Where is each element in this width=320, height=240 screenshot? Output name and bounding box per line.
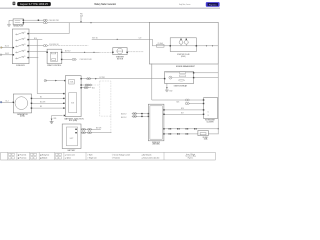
svg-text:STARTER RELAY: STARTER RELAY (177, 53, 191, 56)
connector C5 circle (44, 79, 46, 81)
pin on row1 (141, 113, 143, 114)
wire module row2 (189, 103, 203, 105)
wire K2 upper to right edge (194, 72, 218, 74)
svg-text:⊕ Serial comms data line: ⊕ Serial comms data line (142, 157, 160, 160)
svg-text:C300 B5 25R: C300 B5 25R (49, 20, 60, 22)
legend cell1 text (18, 153, 27, 159)
generator GEN box (13, 94, 33, 113)
wire module row4 from PDB (165, 113, 204, 115)
svg-text:Body, Main, Concise: Body, Main, Concise (179, 4, 191, 6)
wire battery pin1 (81, 128, 101, 130)
arrow on K2 ground wire (166, 87, 168, 89)
svg-text:B25: B25 (177, 102, 180, 104)
model badge Jaguar S-TYPE 1999.25 (17, 2, 51, 6)
off-page connector P1 (0, 47, 2, 49)
svg-text:C20: C20 (139, 38, 142, 40)
wire PDB out row upper (165, 128, 219, 130)
wire K1 to starter motor (62, 51, 99, 53)
connector C11 circles (185, 103, 189, 105)
svg-text:BATT: BATT (70, 137, 74, 140)
off-page connector P2 (0, 101, 2, 103)
legend cell5 text (112, 153, 160, 159)
power distribution box PDB (double border) (148, 104, 165, 141)
wire K2 lower to right edge (194, 77, 218, 79)
connector C2 circles (43, 22, 47, 24)
relay K1 box (46, 49, 62, 63)
connector C9 circles (82, 132, 92, 134)
svg-text:250A: 250A (70, 80, 74, 83)
connector C3 circles (43, 45, 47, 47)
svg-text:B16: B16 (34, 38, 37, 40)
wire BJB feed to module box (82, 64, 152, 79)
svg-text:31-2: 31-2 (5, 100, 8, 102)
svg-text:Issue 1 Sheet: Issue 1 Sheet (186, 153, 196, 156)
legend band (1, 152, 216, 160)
pin on row2 (141, 116, 143, 117)
switch SW1 box top-left (13, 19, 24, 25)
svg-text:Battery Starter Generator: Battery Starter Generator (95, 3, 117, 6)
svg-text:F5: F5 (24, 56, 26, 58)
legend cell6 text (185, 153, 196, 160)
legend cell2 symbols (31, 152, 40, 160)
splice node S2 (84, 52, 85, 53)
logo growler badge (13, 2, 16, 5)
legend cell3 symbols (56, 152, 64, 160)
legend dividers (8, 152, 164, 160)
wire PDB out row lower (165, 133, 198, 135)
wire SW1 to ground (9, 20, 13, 24)
wire FB1 row5 stub (29, 57, 38, 59)
branch to relay K2 (152, 78, 165, 80)
svg-text:B41 3U: B41 3U (121, 117, 127, 119)
wire SW1 pin1 right (24, 19, 43, 21)
svg-text:⏚ Footnote: ⏚ Footnote (112, 157, 120, 160)
svg-text:F4: F4 (24, 50, 26, 52)
svg-text:⊕ Air Network: ⊕ Air Network (142, 153, 152, 156)
BJB pins right (80, 78, 82, 88)
wire BJB bottom to ground (52, 116, 63, 122)
dashed wire to enclosure (92, 84, 100, 86)
svg-text:B3: B3 (40, 106, 42, 108)
battery junction box BJB (65, 76, 81, 117)
ground G1 (7, 25, 10, 27)
svg-text:▣ Relay box: ▣ Relay box (40, 153, 49, 156)
connector C10 circles on row1 (185, 99, 189, 101)
svg-text:B21: B21 (92, 88, 95, 90)
connector C8 circles (82, 128, 92, 130)
module box top-right (203, 98, 218, 119)
svg-text:(ENGINE): (ENGINE) (152, 144, 160, 146)
pin BJB bottom-left (64, 115, 65, 116)
wire FB1 row1 up to bus (29, 23, 69, 34)
wire GEN pin1 to BJB (32, 97, 64, 99)
svg-text:MEGA FUSE: MEGA FUSE (13, 24, 24, 27)
dashed drop from enclosure (110, 116, 112, 133)
wire K1 lower to connector (62, 58, 72, 60)
wire into big box (92, 39, 153, 46)
svg-text:MOTOR: MOTOR (117, 58, 124, 60)
connector C13 circles (133, 113, 137, 115)
BJB pins left (63, 93, 65, 109)
svg-text:▣ Fuse box: ▣ Fuse box (18, 157, 27, 160)
wire FB1 row3 to connector (29, 45, 44, 47)
svg-text:B1: B1 (40, 97, 42, 99)
connector C7b circles (84, 87, 88, 89)
svg-text:BATTERY: BATTERY (68, 149, 77, 152)
svg-text:B19 3U: B19 3U (92, 37, 98, 39)
fusebox FB1 (12, 29, 29, 64)
splice node S4 (117, 39, 118, 40)
svg-text:CLUSTER: CLUSTER (206, 121, 214, 123)
svg-text:12: 12 (208, 112, 210, 114)
svg-text:IGNITION RELAY: IGNITION RELAY (174, 84, 188, 87)
svg-text:▽ Single wire: ▽ Single wire (87, 157, 97, 160)
svg-text:B7 25R: B7 25R (100, 77, 106, 79)
BIG MODULE BOX right (149, 22, 218, 64)
wire battery pin2 (81, 132, 111, 134)
ground G2 (50, 122, 53, 124)
svg-text:B40 3U: B40 3U (121, 113, 127, 115)
HEADER (0, 2, 220, 8)
svg-text:Jaguar S-TYPE 1999.25: Jaguar S-TYPE 1999.25 (20, 3, 49, 6)
svg-text:START CONTROL: START CONTROL (47, 64, 61, 67)
right margin vertical wire (217, 64, 219, 134)
svg-text:⊕ In-line conn: ⊕ In-line conn (65, 153, 75, 156)
legend cell1 symbols (9, 152, 17, 160)
svg-text:C102 B18 2.5UR: C102 B18 2.5UR (80, 59, 93, 61)
terminal pairs on lower row (169, 133, 189, 134)
svg-text:B31: B31 (54, 118, 57, 120)
arrow on BJB feed wire (95, 78, 97, 80)
fuse row 1 (16, 32, 29, 35)
svg-text:▽ Earth: ▽ Earth (87, 153, 93, 156)
wire FB1 row2 stub (29, 39, 42, 41)
pin on wire (38, 20, 39, 21)
header rule (0, 7, 220, 9)
legend cell3 text (65, 153, 75, 159)
vertical feed wire to BJB (37, 40, 64, 94)
svg-text:GENERATOR: GENERATOR (17, 113, 28, 116)
svg-text:⊕ Splice: ⊕ Splice (65, 157, 71, 160)
svg-text:B26: B26 (181, 108, 184, 110)
svg-text:INSTRUMENT: INSTRUMENT (205, 120, 215, 122)
svg-text:B2 25R: B2 25R (40, 101, 46, 103)
wire GEN left to offpage (2, 101, 13, 103)
svg-text:▣ Fuse link: ▣ Fuse link (18, 153, 27, 156)
off-page arrow A1 (80, 17, 82, 23)
svg-text:Fig 01.1: Fig 01.1 (209, 4, 217, 6)
svg-text:F1: F1 (24, 32, 26, 34)
connector C6 circles (87, 78, 91, 80)
fuse row 5 (16, 56, 29, 59)
legend cell2 text (40, 153, 49, 159)
svg-text:FUSE 1: FUSE 1 (203, 137, 209, 139)
svg-text:13: 13 (208, 115, 210, 117)
connector C7 circles (85, 84, 91, 86)
wire SW1 pin2 to bus (24, 22, 43, 24)
wire to module row1 (189, 99, 203, 101)
fuse row 3 (13, 44, 29, 48)
wire into PDB row1 (132, 113, 148, 115)
vertical feed on right column (152, 64, 185, 100)
dashed wire from C3 (47, 45, 88, 47)
relay K2 box (164, 72, 195, 84)
splice node S2b (93, 52, 94, 53)
svg-text:FUSE BOX: FUSE BOX (152, 142, 161, 144)
relay U1 sub-box (170, 38, 198, 52)
connector C4 circles (72, 58, 76, 60)
connector C1 circles (43, 19, 47, 21)
svg-text:B0 50R: B0 50R (96, 127, 102, 129)
figure badge (206, 2, 220, 7)
wire GEN pin2 to BJB (32, 102, 64, 104)
pin FB1 left2 (13, 54, 15, 55)
svg-text:⏚ Screen Voltage Current: ⏚ Screen Voltage Current (112, 153, 131, 156)
wire into PDB row2 (132, 115, 148, 117)
wire C5 to BJB (47, 80, 66, 82)
svg-text:BOX (BJB): BOX (BJB) (69, 120, 78, 122)
fuse F1 in big box (157, 42, 165, 47)
fuse box F2 bottom right (198, 131, 208, 136)
battery B1 (62, 124, 81, 149)
wire F2 to right edge (208, 133, 218, 135)
connector C14 circles (133, 115, 137, 117)
pin BJB left top (64, 80, 66, 81)
fuse row 4 (16, 50, 29, 53)
wire FB1 left to offpage (2, 47, 12, 49)
svg-text:▣ Module: ▣ Module (40, 157, 47, 160)
FOOTER LEGEND (1, 152, 216, 160)
svg-text:B32: B32 (170, 91, 173, 93)
junction right edge (218, 128, 219, 129)
splice nodes on internal wire (206, 45, 207, 46)
svg-text:F2: F2 (24, 38, 26, 40)
fuse row 2 (16, 38, 29, 41)
wire FB1 left2 to offpage (2, 54, 13, 56)
legend cell4 text (87, 153, 97, 159)
svg-text:ENGINE MANAGEMENT: ENGINE MANAGEMENT (176, 65, 195, 68)
wire BJB low right (82, 87, 91, 89)
svg-text:F30: F30 (80, 14, 83, 16)
ground drop from K2 (166, 84, 168, 90)
arrow on C5 wire (55, 80, 57, 82)
svg-text:Fig 01.1: Fig 01.1 (188, 157, 194, 159)
fuse value labels in FB1 (24, 32, 26, 58)
off-page connector P1b (0, 54, 2, 56)
svg-text:30-10: 30-10 (5, 45, 9, 47)
starter motor M1 (112, 48, 128, 55)
wire main bus to right box (47, 22, 149, 24)
dashed enclosure (100, 81, 111, 116)
ground G3 (165, 90, 168, 92)
splice node S1 (90, 22, 91, 23)
svg-text:(EMS): (EMS) (181, 56, 186, 58)
wire module row3 from PDB (165, 109, 204, 111)
arrow on ground wire (51, 119, 53, 121)
svg-text:B27: B27 (181, 113, 184, 115)
terminal pairs on upper row (169, 128, 197, 129)
svg-text:B17 6U: B17 6U (65, 50, 71, 52)
internal wire across big box (153, 45, 219, 47)
wire GEN pin3 to BJB (32, 107, 64, 109)
svg-text:F3: F3 (24, 44, 26, 46)
svg-text:BJB: BJB (71, 103, 74, 105)
svg-text:FUSE BOX: FUSE BOX (16, 65, 25, 67)
wire FB1 row4 to relay box (29, 51, 47, 53)
svg-text:F5 30A: F5 30A (158, 42, 163, 45)
dashed wire from M1 (128, 51, 144, 53)
svg-text:30-12: 30-12 (5, 53, 9, 55)
svg-text:C101 B14 3U: C101 B14 3U (49, 44, 59, 46)
wire BJB mid right (82, 84, 92, 86)
